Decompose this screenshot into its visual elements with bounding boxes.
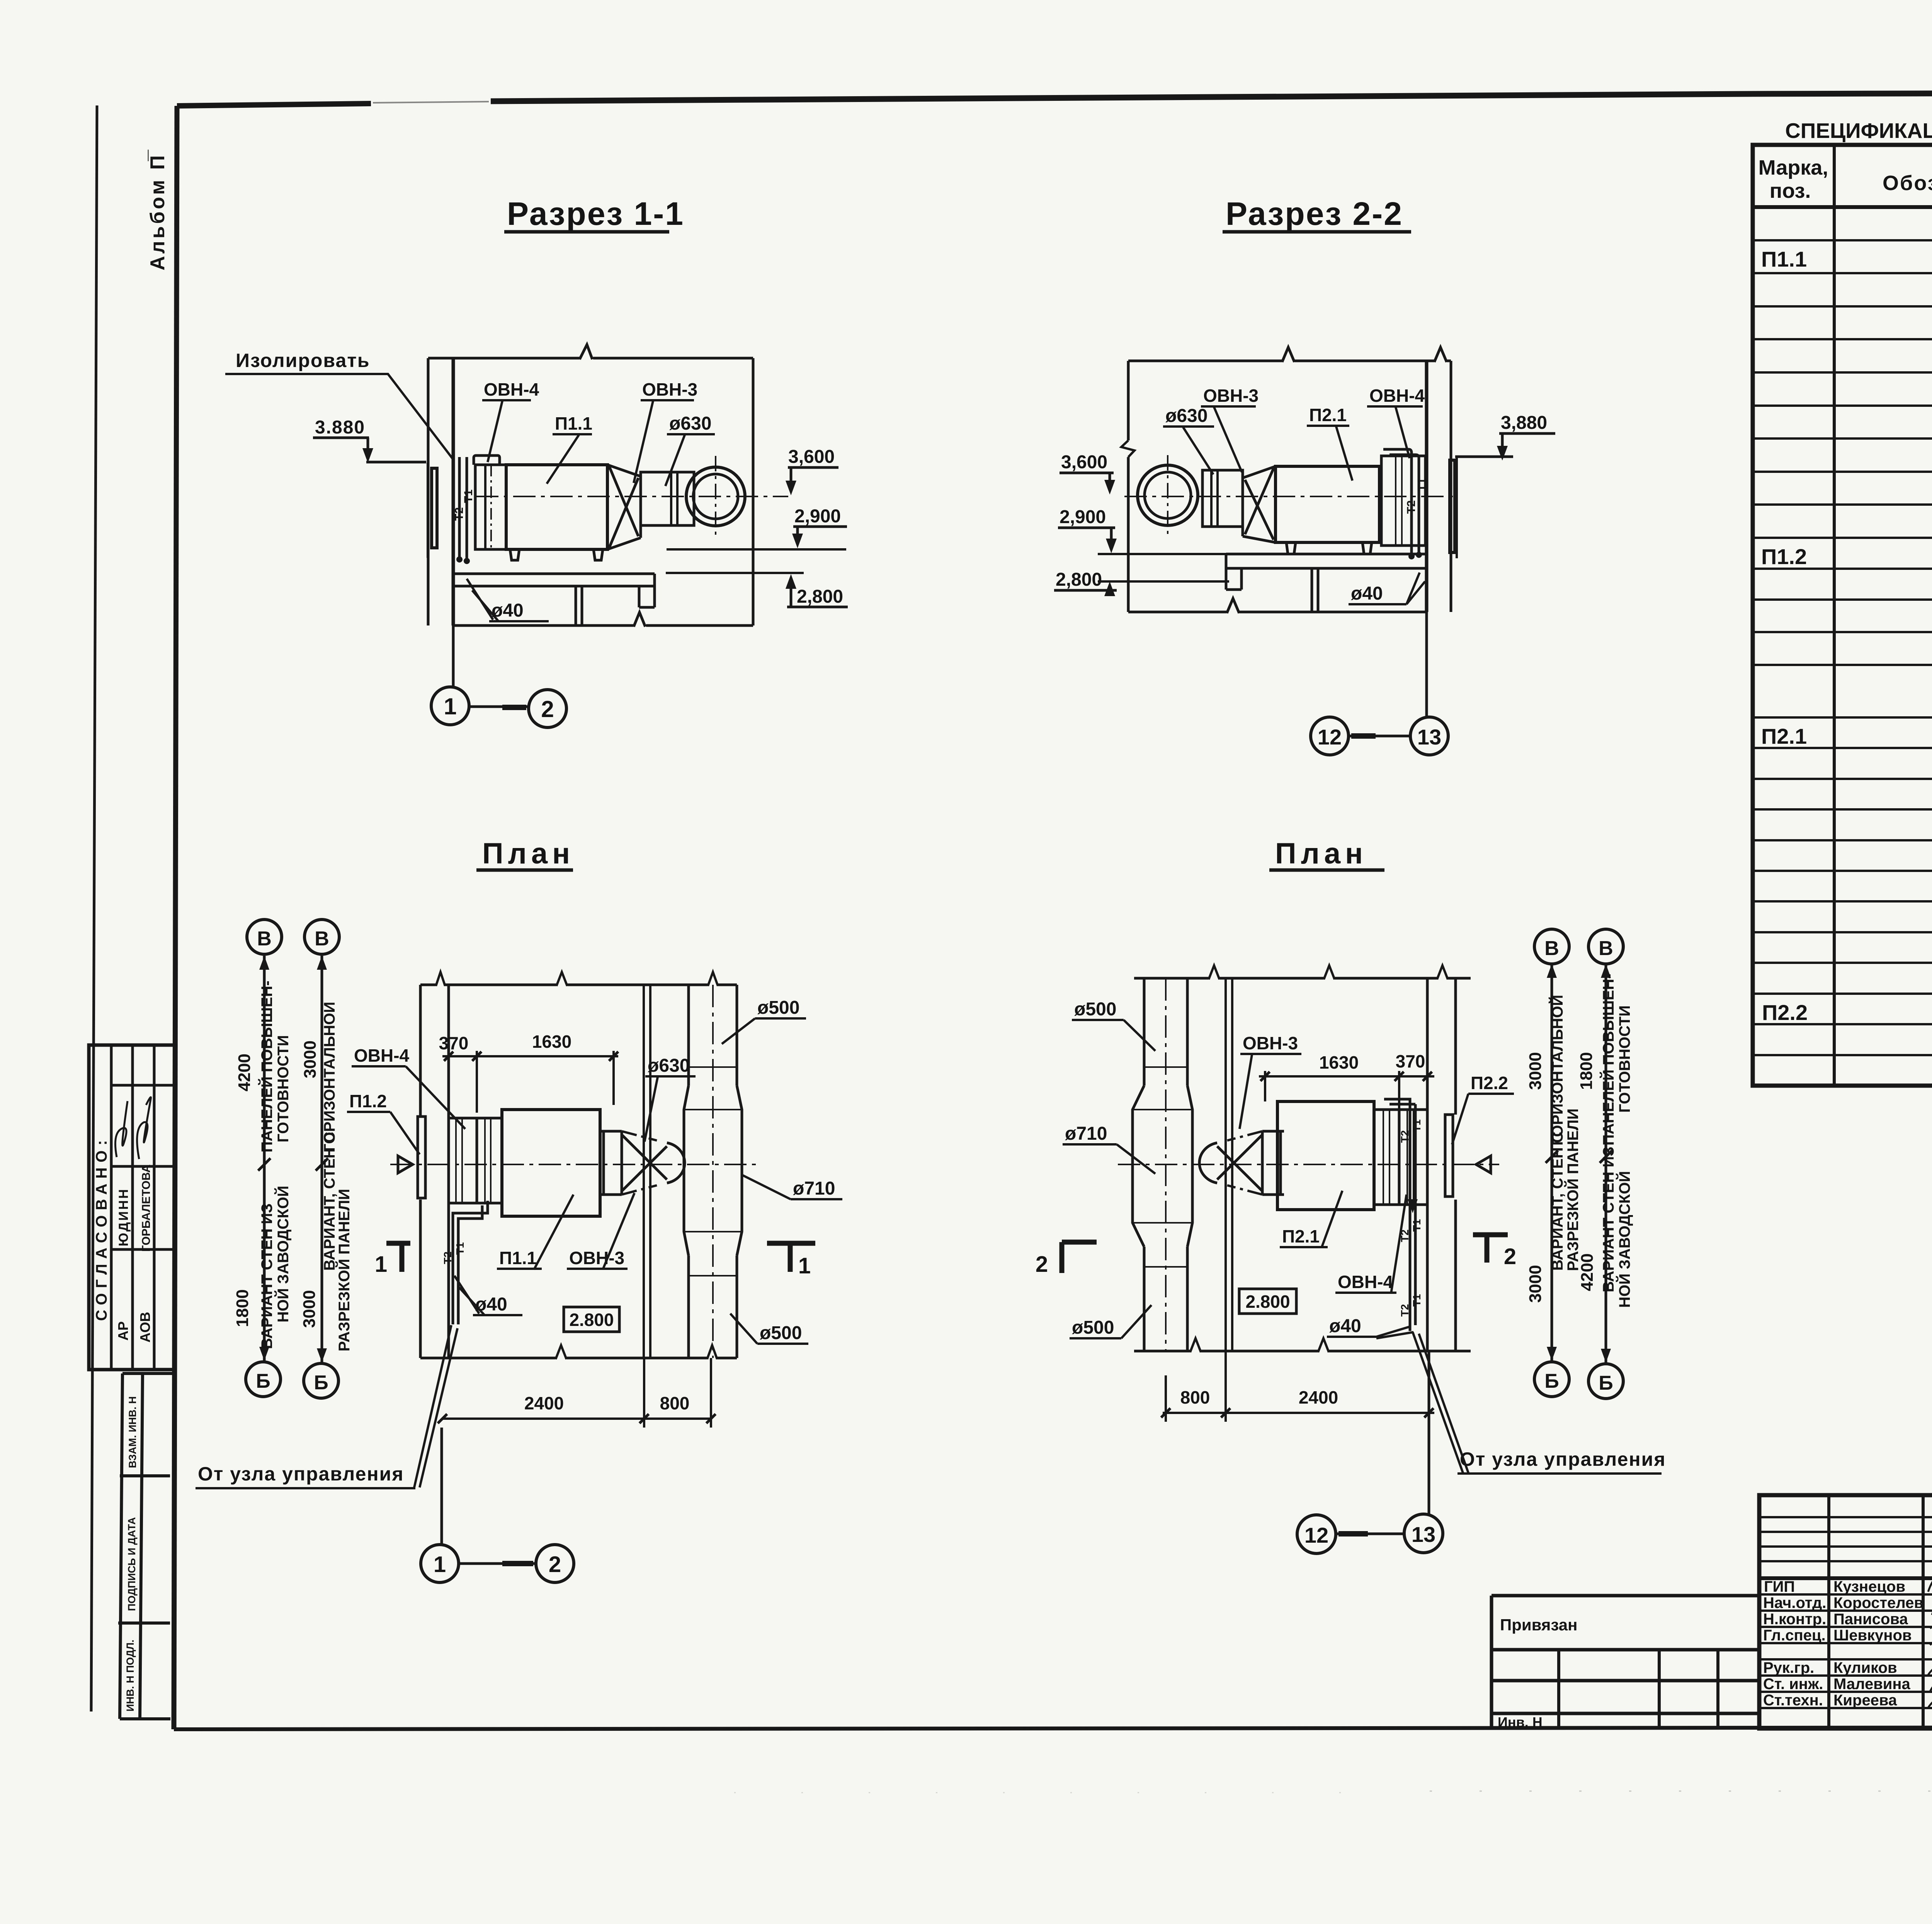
outer wall band <box>420 985 449 1358</box>
support frame <box>453 574 655 625</box>
svg-text:13: 13 <box>1417 725 1441 749</box>
svg-text:П2.2: П2.2 <box>1471 1073 1508 1093</box>
axis circle B top4 <box>1588 929 1623 964</box>
svg-text:ГОРБАЛЕТОВА: ГОРБАЛЕТОВА <box>140 1164 153 1252</box>
level box 2.800 <box>564 1307 619 1332</box>
svg-text:1: 1 <box>375 1252 387 1277</box>
svg-text:П1.1: П1.1 <box>1761 247 1807 271</box>
svg-text:2: 2 <box>1036 1252 1048 1277</box>
svg-text:СПЕЦИФИКАЦИЯ ОТОПИТЕЛЬНО-ВЕНТИ: СПЕЦИФИКАЦИЯ ОТОПИТЕЛЬНО-ВЕНТИЛЯЦИОННЫХ … <box>1785 119 1932 143</box>
svg-text:Т1: Т1 <box>454 1242 466 1255</box>
heating pipes plan1 <box>453 1201 488 1324</box>
faint scan artifact dotted line <box>1430 1791 1932 1792</box>
svg-text:Т2: Т2 <box>1399 1229 1411 1242</box>
intake grille P1.2 <box>418 1117 425 1198</box>
svg-text:ОВН-3: ОВН-3 <box>1243 1033 1298 1053</box>
louver unit OVN-4 <box>475 465 506 549</box>
outlet neck <box>600 1131 622 1195</box>
svg-text:ø710: ø710 <box>1065 1123 1107 1144</box>
svg-text:3000: 3000 <box>1526 1265 1545 1303</box>
svg-text:ГОРИЗОНТАЛЬНОЙ: ГОРИЗОНТАЛЬНОЙ <box>320 1002 338 1152</box>
svg-text:ø500: ø500 <box>760 1323 802 1343</box>
svg-text:План: План <box>1275 837 1367 870</box>
svg-text:Разрез 2-2: Разрез 2-2 <box>1226 195 1403 232</box>
svg-text:П2.1: П2.1 <box>1761 724 1807 748</box>
svg-text:ø40: ø40 <box>1329 1316 1361 1336</box>
signatures squiggles <box>1928 1574 1932 1712</box>
svg-text:ЮДИНН: ЮДИНН <box>116 1188 131 1246</box>
svg-text:ø630: ø630 <box>669 413 711 434</box>
right extension line <box>752 358 755 625</box>
svg-text:П2.1: П2.1 <box>1309 405 1347 425</box>
privyazan table <box>1492 1596 1759 1729</box>
dim 2400/800 <box>442 1358 711 1428</box>
unit centerline plan2 <box>1118 1164 1499 1165</box>
flow arrow plan2 <box>1476 1156 1491 1173</box>
axis circle B top3 <box>1534 929 1569 964</box>
level lines <box>1098 553 1226 555</box>
svg-text:Ст.техн.: Ст.техн. <box>1763 1692 1823 1709</box>
cone X plan2 <box>1217 1135 1262 1191</box>
top boundary <box>420 984 737 986</box>
svg-text:ПОДПИСЬ И ДАТА: ПОДПИСЬ И ДАТА <box>126 1517 138 1611</box>
sheet edge line <box>91 105 97 1712</box>
svg-text:1: 1 <box>434 1552 446 1577</box>
section mark 1 right <box>767 1243 815 1272</box>
roles and names <box>1763 1578 1923 1709</box>
svg-text:370: 370 <box>439 1033 469 1053</box>
svg-text:2,800: 2,800 <box>797 586 843 607</box>
svg-text:1800: 1800 <box>1577 1052 1596 1090</box>
fan box P1.1 <box>506 465 607 549</box>
partition wall band plan2 <box>1226 978 1232 1351</box>
vertical duct <box>684 985 742 1358</box>
svg-text:П1.2: П1.2 <box>1761 544 1807 569</box>
svg-text:ГИП: ГИП <box>1764 1578 1795 1595</box>
wall right <box>1425 361 1429 612</box>
svg-text:От узла управления: От узла управления <box>198 1463 404 1485</box>
svg-text:1630: 1630 <box>1319 1052 1359 1072</box>
svg-text:ø500: ø500 <box>1072 1317 1114 1338</box>
svg-text:П1.1: П1.1 <box>555 413 592 433</box>
svg-text:2400: 2400 <box>1299 1387 1338 1407</box>
svg-text:ВАРИАНТ СТЕН ИЗ: ВАРИАНТ СТЕН ИЗ <box>1600 1147 1617 1292</box>
svg-text:Т2: Т2 <box>1399 1130 1411 1143</box>
axis circle B bot2 <box>304 1363 338 1398</box>
svg-text:2.800: 2.800 <box>569 1310 614 1330</box>
rotated wall variant notes <box>258 981 353 1351</box>
inlet cone <box>1243 466 1276 542</box>
svg-text:ГОРИЗОНТАЛЬНОЙ: ГОРИЗОНТАЛЬНОЙ <box>1548 995 1566 1146</box>
svg-text:ø500: ø500 <box>757 998 799 1018</box>
svg-text:ОВН-4: ОВН-4 <box>1369 386 1425 406</box>
svg-text:Б: Б <box>1544 1370 1559 1392</box>
svg-text:ГОТОВНОСТИ: ГОТОВНОСТИ <box>275 1035 292 1142</box>
svg-text:Альбом П̅: Альбом П̅ <box>146 150 169 270</box>
level lines <box>667 548 846 551</box>
svg-text:НОЙ ЗАВОДСКОЙ: НОЙ ЗАВОДСКОЙ <box>1616 1171 1633 1308</box>
svg-text:ø630: ø630 <box>648 1055 690 1076</box>
inventory margin table <box>118 1373 172 1719</box>
title block outer <box>1759 1495 1932 1729</box>
svg-text:ГОТОВНОСТИ: ГОТОВНОСТИ <box>1616 1005 1633 1113</box>
svg-text:ВАРИАНТ, СТЕН С: ВАРИАНТ, СТЕН С <box>1549 1132 1566 1271</box>
svg-text:РАЗРЕЗКОЙ ПАНЕЛИ: РАЗРЕЗКОЙ ПАНЕЛИ <box>1564 1108 1582 1271</box>
bottom boundary line <box>1128 611 1427 614</box>
feet <box>510 549 603 560</box>
svg-text:В: В <box>1599 937 1613 960</box>
louver unit OVN-4 <box>1381 456 1425 546</box>
svg-text:РАЗРЕЗКОЙ ПАНЕЛИ: РАЗРЕЗКОЙ ПАНЕЛИ <box>335 1189 353 1351</box>
axis circles 1 2 <box>431 687 469 725</box>
dim 800/2400 plan2 <box>1163 1351 1434 1422</box>
svg-text:Рук.гр.: Рук.гр. <box>1763 1659 1814 1676</box>
dim ticks on axis lines <box>258 1158 328 1171</box>
outer wall band plan2 <box>1427 978 1456 1351</box>
svg-text:Т1: Т1 <box>1411 1294 1423 1307</box>
svg-text:Киреева: Киреева <box>1833 1692 1897 1709</box>
svg-text:СОГЛАСОВАНО:: СОГЛАСОВАНО: <box>93 1135 110 1321</box>
svg-text:ø500: ø500 <box>1074 999 1116 1020</box>
svg-text:3,600: 3,600 <box>788 447 835 467</box>
svg-text:Шевкунов: Шевкунов <box>1833 1627 1912 1644</box>
dim ticks on axis lines plan2 <box>1546 1151 1612 1163</box>
svg-text:1800: 1800 <box>233 1289 252 1327</box>
svg-text:3.880: 3.880 <box>315 417 365 438</box>
svg-text:ПАНЕЛЕЙ ПОВЫШЕН-: ПАНЕЛЕЙ ПОВЫШЕН- <box>258 981 276 1152</box>
svg-text:2,900: 2,900 <box>1060 507 1106 527</box>
svg-text:ОВН-4: ОВН-4 <box>1338 1272 1393 1292</box>
svg-text:12: 12 <box>1304 1523 1328 1547</box>
svg-text:ИНВ. Н ПОДЛ.: ИНВ. Н ПОДЛ. <box>124 1640 136 1712</box>
header labels <box>1759 156 1932 202</box>
heater section plan2 <box>1374 1110 1399 1205</box>
bell plan2 <box>1199 1143 1217 1183</box>
svg-text:Т1: Т1 <box>462 489 475 503</box>
partition wall band <box>644 985 650 1358</box>
svg-text:поз.: поз. <box>1770 179 1811 202</box>
svg-text:План: План <box>482 837 575 870</box>
outlet neck plan2 <box>1262 1131 1284 1195</box>
rotated dims plan2 <box>1526 1052 1597 1303</box>
svg-text:3,880: 3,880 <box>1501 413 1547 433</box>
svg-text:Коростелев: Коростелев <box>1833 1594 1923 1611</box>
svg-text:Т2: Т2 <box>442 1251 454 1264</box>
section mark 1 left <box>386 1243 410 1272</box>
left extension line <box>427 358 430 625</box>
louver OVN-4 <box>449 1118 477 1203</box>
intake grille P2.2 <box>1450 460 1455 552</box>
svg-text:2.800: 2.800 <box>1245 1292 1290 1312</box>
svg-text:2: 2 <box>541 696 554 722</box>
svg-text:В: В <box>315 928 329 950</box>
svg-text:2: 2 <box>549 1552 561 1577</box>
outlet duct <box>641 472 694 525</box>
svg-text:Куликов: Куликов <box>1833 1659 1897 1676</box>
fan box P1.1 <box>502 1110 600 1216</box>
section mark 2 right <box>1473 1235 1508 1263</box>
dim 1630/370 plan2 <box>1259 1071 1434 1110</box>
flow arrow <box>398 1156 413 1173</box>
heating pipes plan2 <box>1384 1099 1415 1331</box>
feet <box>1286 542 1372 554</box>
svg-text:П1.1: П1.1 <box>499 1248 537 1268</box>
duct <box>1202 470 1243 527</box>
svg-text:ø40: ø40 <box>1351 583 1383 604</box>
svg-text:3000: 3000 <box>300 1290 319 1328</box>
svg-text:П1.2: П1.2 <box>349 1091 387 1111</box>
intake grille P2.2 <box>1445 1115 1453 1197</box>
svg-text:ø630: ø630 <box>1165 406 1207 426</box>
axis circle B bot4 <box>1588 1364 1623 1399</box>
marka column entries <box>1761 247 1808 1025</box>
svg-text:Т2: Т2 <box>1405 500 1418 514</box>
svg-text:Разрез 1-1: Разрез 1-1 <box>507 195 684 232</box>
unit centerline <box>390 1164 757 1165</box>
svg-text:ОВН-3: ОВН-3 <box>642 379 697 399</box>
dim 370/1630 <box>442 1051 618 1113</box>
fan box P2.1 <box>1276 466 1379 542</box>
svg-text:От узла управления: От узла управления <box>1460 1448 1666 1470</box>
svg-text:АОВ: АОВ <box>137 1312 153 1343</box>
svg-text:Б: Б <box>314 1372 328 1394</box>
vertical duct plan2 <box>1133 978 1192 1351</box>
svg-text:Кузнецов: Кузнецов <box>1833 1578 1905 1595</box>
svg-text:Изолировать: Изолировать <box>236 350 370 371</box>
svg-text:П2.2: П2.2 <box>1762 1000 1808 1025</box>
svg-text:Гл.спец.: Гл.спец. <box>1763 1627 1826 1644</box>
axis line V4 <box>1605 964 1607 1363</box>
svg-text:13: 13 <box>1412 1522 1435 1547</box>
axis line V3 <box>1551 964 1553 1361</box>
cone X <box>622 1135 667 1191</box>
centerline <box>1124 496 1456 497</box>
svg-text:Т1: Т1 <box>1416 478 1429 491</box>
svg-text:4200: 4200 <box>235 1054 254 1091</box>
svg-text:800: 800 <box>660 1393 690 1413</box>
axis circle B top1 <box>247 920 282 954</box>
axis circle B top2 <box>304 920 339 954</box>
round flange <box>686 467 745 526</box>
svg-text:П2.1: П2.1 <box>1282 1226 1320 1246</box>
svg-text:370: 370 <box>1396 1051 1425 1071</box>
bottom boundary line <box>453 624 753 627</box>
axis circles 1 2 plan1 <box>440 1428 443 1545</box>
axis circles 12 13 plan2 <box>1428 1351 1430 1514</box>
axis circle B bot1 <box>246 1362 281 1397</box>
svg-text:Привязан: Привязан <box>1500 1616 1577 1634</box>
svg-text:Б: Б <box>1599 1372 1613 1394</box>
bell <box>667 1143 685 1183</box>
svg-text:В: В <box>1544 937 1559 960</box>
svg-text:3,600: 3,600 <box>1061 452 1107 473</box>
svg-text:ВАРИАНТ СТЕН ИЗ: ВАРИАНТ СТЕН ИЗ <box>259 1203 276 1349</box>
level box 2.800 plan2 <box>1239 1289 1296 1314</box>
svg-text:Т2: Т2 <box>453 507 466 521</box>
top boundary dim line <box>1128 360 1451 362</box>
spec table grid <box>1753 145 1932 1086</box>
top boundary dim line <box>428 357 753 360</box>
section mark 2 left <box>1062 1242 1097 1273</box>
axis circle B bot3 <box>1534 1362 1569 1397</box>
svg-text:1: 1 <box>798 1253 811 1278</box>
svg-text:3000: 3000 <box>301 1040 320 1078</box>
svg-text:ПАНЕЛЕЙ ПОВЫШЕН-: ПАНЕЛЕЙ ПОВЫШЕН- <box>1599 974 1617 1146</box>
rotated dims <box>233 1040 320 1328</box>
svg-text:Нач.отд.: Нач.отд. <box>1763 1594 1826 1611</box>
svg-text:3000: 3000 <box>1526 1052 1545 1090</box>
svg-text:2,800: 2,800 <box>1056 569 1102 590</box>
svg-text:ОВН-4: ОВН-4 <box>354 1045 410 1066</box>
svg-text:ОВН-3: ОВН-3 <box>569 1248 624 1268</box>
svg-text:Панисова: Панисова <box>1833 1611 1908 1628</box>
svg-text:Малевина: Малевина <box>1833 1676 1911 1693</box>
wall <box>452 358 455 625</box>
svg-text:800: 800 <box>1180 1387 1210 1407</box>
svg-text:ø710: ø710 <box>793 1178 835 1199</box>
axis circles 12 13 <box>1311 717 1349 755</box>
svg-text:2,900: 2,900 <box>794 506 841 527</box>
frame left <box>174 106 177 1729</box>
intake grille P1.2 <box>432 468 437 548</box>
louver OVN-4 plan2 <box>1399 1110 1427 1205</box>
frame top <box>177 104 371 106</box>
top boundary plan2 <box>1134 977 1471 980</box>
svg-text:Б: Б <box>256 1370 270 1392</box>
heater pipes <box>1412 453 1419 556</box>
bottom boundary <box>420 1357 737 1360</box>
round flange <box>1138 465 1198 525</box>
support frame <box>1226 554 1427 612</box>
svg-text:2: 2 <box>1504 1244 1516 1269</box>
svg-text:ОВН-3: ОВН-3 <box>1203 386 1259 406</box>
svg-text:2400: 2400 <box>524 1393 564 1413</box>
svg-text:12: 12 <box>1318 725 1342 749</box>
svg-text:Ст. инж.: Ст. инж. <box>1763 1676 1823 1693</box>
rotated wall variant notes plan2 <box>1548 974 1633 1308</box>
signatures <box>115 1101 128 1157</box>
outlet cone <box>607 465 641 549</box>
bottom boundary plan2 <box>1134 1350 1471 1353</box>
heater pipes T1 T2 <box>459 457 467 559</box>
fan box P2.1 <box>1277 1101 1374 1210</box>
heater section <box>477 1118 502 1203</box>
svg-text:Т1: Т1 <box>1411 1219 1423 1232</box>
frame bottom <box>174 1727 1932 1729</box>
svg-text:ВЗАМ. ИНВ. Н: ВЗАМ. ИНВ. Н <box>127 1396 138 1468</box>
axis line V2 <box>321 956 323 1362</box>
svg-text:АР: АР <box>115 1321 131 1341</box>
left extension line <box>1127 361 1130 612</box>
svg-text:НОЙ ЗАВОДСКОЙ: НОЙ ЗАВОДСКОЙ <box>274 1186 292 1322</box>
svg-text:Обозначение: Обозначение <box>1883 172 1932 195</box>
svg-text:ОВН-4: ОВН-4 <box>484 379 539 399</box>
svg-text:Т1: Т1 <box>1411 1119 1423 1132</box>
svg-text:Инв. Н: Инв. Н <box>1498 1714 1543 1730</box>
svg-text:Т2: Т2 <box>1399 1304 1411 1317</box>
approval table (Согласовано) <box>89 1045 175 1370</box>
svg-text:Марка,: Марка, <box>1759 156 1828 179</box>
left signature grid <box>1829 1495 1932 1729</box>
axis line V1 <box>263 956 266 1361</box>
svg-text:1630: 1630 <box>532 1032 571 1052</box>
centerline <box>476 496 788 497</box>
svg-text:В: В <box>257 928 272 950</box>
svg-text:Н.контр.: Н.контр. <box>1763 1611 1826 1628</box>
svg-text:1: 1 <box>444 693 456 719</box>
